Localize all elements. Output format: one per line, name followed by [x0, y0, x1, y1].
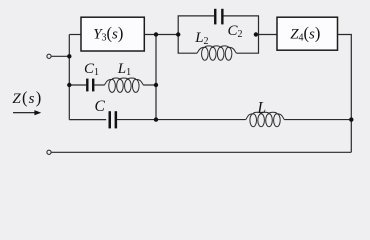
node: loop left junction	[176, 32, 180, 36]
node: top row / middle vertical junction	[154, 32, 158, 36]
wire: Y3 box to LC loop	[144, 34, 178, 36]
svg-text:Y3(s): Y3(s)	[93, 23, 123, 43]
wire: top terminal stub	[51, 55, 69, 57]
wire: jog from left vertical to Y3 box	[69, 34, 81, 36]
wire: middle vertical at x=156 from top row to C row	[155, 35, 157, 120]
wire: C capacitor to L inductor	[117, 119, 246, 121]
input terminal (bottom, open circle)	[47, 150, 51, 154]
inductor L	[246, 112, 284, 119]
wire: LC loop to Z4 box	[259, 34, 278, 36]
two-port box Y3(s)	[81, 17, 144, 51]
wire: top-left vertical from Y3 lead down to C row corner	[68, 35, 70, 120]
node: top terminal junction	[67, 54, 71, 58]
wire: C1-L1 series branch row	[69, 84, 86, 86]
wire: bottom return from terminal to right vertical	[51, 151, 351, 153]
input terminal (top, open circle)	[47, 54, 51, 58]
capacitor C1	[86, 79, 88, 92]
node: L row right junction	[349, 117, 353, 121]
wire: C row from left corner to C capacitor	[69, 119, 106, 121]
node: C row middle junction	[154, 117, 158, 121]
wire: parallel L2/C2 loop frame	[178, 16, 258, 35]
node: L1 right junction	[154, 83, 158, 87]
svg-text:Z(s): Z(s)	[12, 88, 42, 107]
inductor L1	[104, 78, 143, 85]
two-port box Z4(s)	[277, 17, 338, 50]
node: loop right junction	[254, 32, 258, 36]
wire: L inductor to right vertical	[284, 119, 351, 121]
svg-text:C: C	[95, 98, 106, 115]
capacitor C	[109, 111, 112, 128]
inductor L2 (bottom of loop)	[197, 46, 236, 53]
wire: Z4 box to right vertical corner	[338, 35, 352, 153]
svg-text:Z4(s): Z4(s)	[290, 23, 320, 43]
node: C1 branch left junction	[67, 83, 71, 87]
capacitor C2 (top of loop)	[214, 9, 216, 25]
svg-text:L: L	[257, 99, 267, 116]
